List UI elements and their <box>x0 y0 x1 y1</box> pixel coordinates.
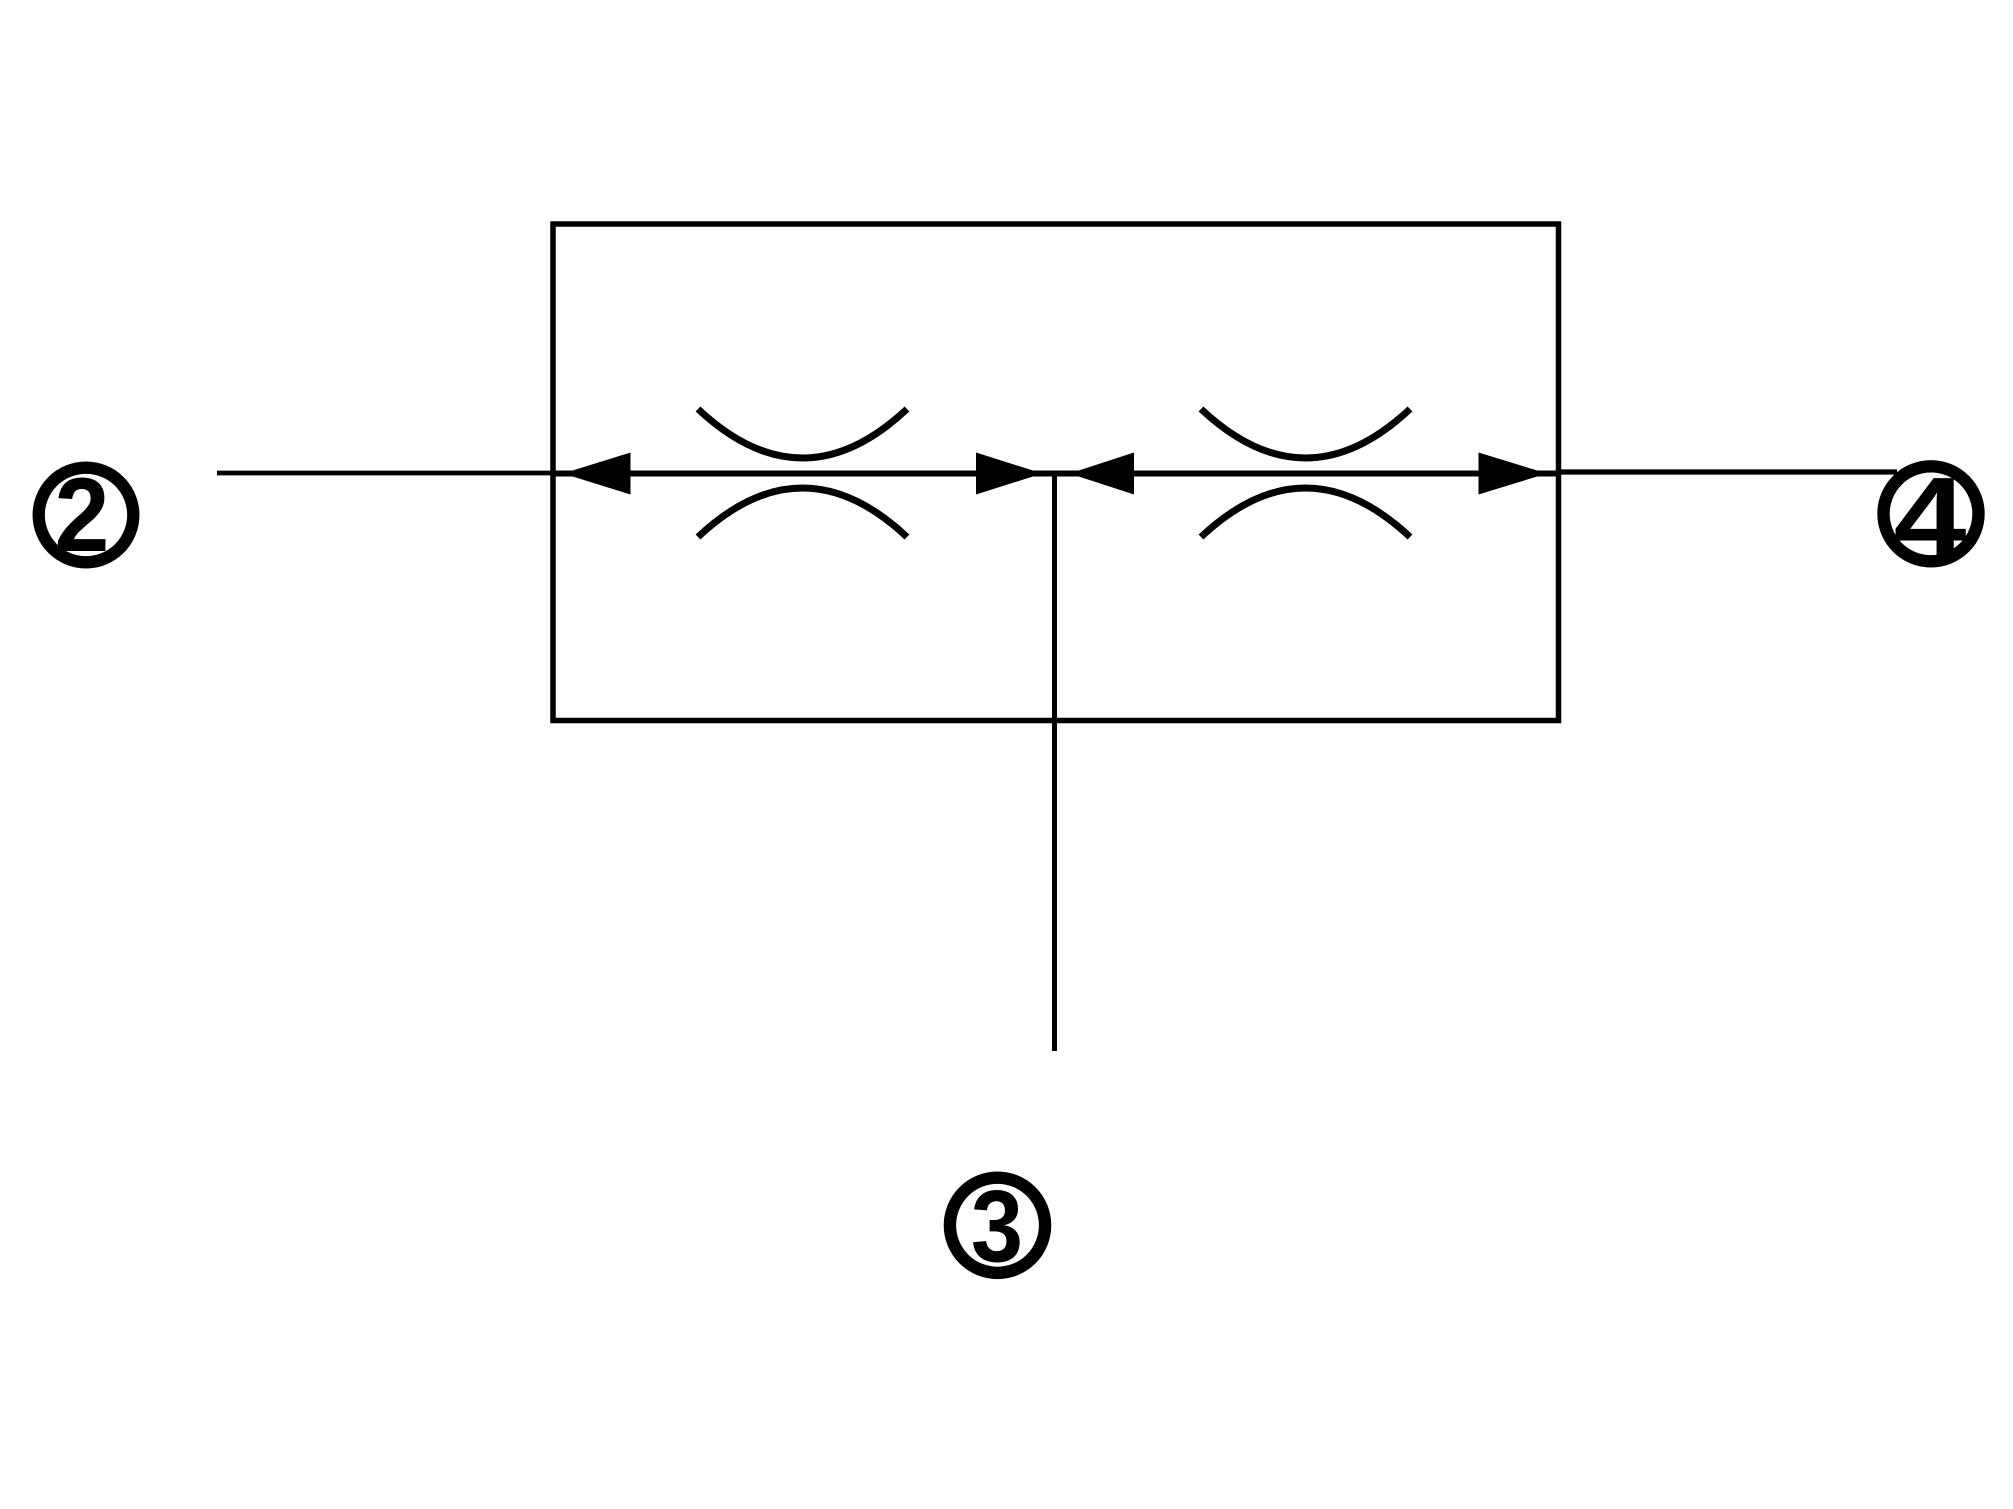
port 4 circle <box>1884 466 1979 561</box>
orifice right: top arc <box>1201 409 1410 458</box>
wire: main horizontal shaft <box>551 471 1562 477</box>
svg-text:2: 2 <box>55 456 110 573</box>
valve body rectangle <box>553 224 1559 721</box>
arrowhead right pointing right <box>1479 453 1548 495</box>
arrowhead center-left pointing right <box>976 453 1043 495</box>
orifice right: bottom arc <box>1201 488 1410 537</box>
svg-text:3: 3 <box>971 1169 1023 1283</box>
svg-text:4: 4 <box>1894 454 1967 581</box>
port 3 circle <box>950 1178 1045 1273</box>
port 2 circle <box>39 468 134 563</box>
orifice left: top arc <box>698 409 907 458</box>
arrowhead left pointing left <box>563 453 631 495</box>
wire: vertical line to port 3 <box>1052 473 1057 1051</box>
wire: port 4 line <box>1558 469 1897 474</box>
orifice left: bottom arc <box>698 488 907 537</box>
arrowhead center-right pointing left <box>1070 453 1135 495</box>
wire: port 2 line <box>217 471 553 476</box>
